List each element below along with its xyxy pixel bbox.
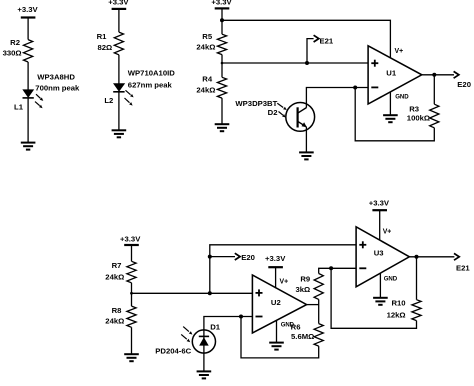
resistor R8 24kΩ	[105, 306, 136, 327]
node (U3 feedback junction)	[329, 266, 333, 270]
node E21 branch	[305, 61, 309, 65]
wire U1 GND pin	[389, 92, 391, 115]
svg-text:24kΩ: 24kΩ	[105, 317, 124, 326]
svg-text:R9: R9	[300, 275, 310, 284]
wire	[318, 299, 320, 323]
svg-text:R7: R7	[112, 261, 122, 270]
svg-text:82Ω: 82Ω	[97, 43, 112, 52]
power +3.3V rail (L1 branch)	[17, 5, 38, 18]
node U1 output	[432, 73, 436, 77]
svg-text:E21: E21	[456, 263, 470, 272]
power +3.3V rail (R5 column)	[211, 0, 232, 8]
wire	[416, 257, 418, 300]
svg-text:24kΩ: 24kΩ	[105, 272, 124, 281]
resistor R1 82Ω	[97, 32, 124, 55]
wire U2 feedback	[241, 317, 319, 358]
svg-text:+3.3V: +3.3V	[120, 235, 141, 244]
transistor D2 WP3DP3BT (phototransistor)	[235, 99, 314, 131]
ground (U2)	[269, 343, 284, 350]
wire	[27, 62, 29, 90]
svg-text:E21: E21	[320, 36, 334, 45]
svg-text:24kΩ: 24kΩ	[196, 42, 215, 51]
net tag E21	[307, 35, 334, 63]
svg-text:R5: R5	[202, 32, 213, 41]
ground (R4)	[215, 124, 230, 131]
svg-text:3kΩ: 3kΩ	[295, 285, 310, 294]
node (R5/R4 junction)	[221, 62, 224, 65]
wire U2 inverting input	[204, 317, 253, 331]
ground (R8)	[124, 354, 139, 361]
svg-text:700nm peak: 700nm peak	[35, 84, 80, 93]
svg-text:L2: L2	[104, 96, 113, 105]
wire	[131, 327, 133, 354]
ground (U3)	[373, 298, 388, 305]
svg-text:V+: V+	[395, 48, 404, 55]
svg-text:R10: R10	[391, 299, 405, 308]
svg-text:12kΩ: 12kΩ	[387, 310, 406, 319]
LED L2 WP710A10ID	[104, 68, 175, 105]
svg-text:+3.3V: +3.3V	[108, 0, 129, 6]
svg-text:U2: U2	[271, 298, 281, 307]
svg-text:E20: E20	[241, 253, 255, 262]
svg-text:100kΩ: 100kΩ	[407, 114, 430, 123]
svg-text:GND: GND	[281, 321, 295, 328]
wire	[221, 98, 223, 124]
power +3.3V rail (L2 branch)	[108, 0, 129, 9]
wire	[221, 8, 223, 34]
ground (U1)	[383, 115, 398, 122]
ground (D2)	[299, 152, 314, 159]
svg-text:+3.3V: +3.3V	[211, 0, 232, 6]
svg-text:+3.3V: +3.3V	[17, 5, 38, 14]
resistor R4 24kΩ	[196, 74, 226, 98]
wire	[27, 98, 29, 143]
svg-text:R1: R1	[97, 32, 108, 41]
ground (D1)	[197, 371, 212, 378]
svg-text:330Ω: 330Ω	[3, 49, 22, 58]
svg-text:R8: R8	[112, 306, 123, 315]
LED L1 WP3A8HD	[14, 73, 80, 112]
ground (L2)	[112, 130, 127, 137]
op-amp U3	[356, 227, 409, 287]
svg-text:R3: R3	[409, 105, 419, 114]
wire U1 output / net E20	[422, 71, 471, 89]
svg-text:WP710A10ID: WP710A10ID	[128, 68, 175, 77]
node (R7/R8 junction)	[130, 292, 133, 295]
wire U2 noninverting input	[132, 292, 253, 294]
node (E20/U3 branch)	[208, 291, 212, 295]
svg-text:24kΩ: 24kΩ	[196, 86, 215, 95]
svg-text:D1: D1	[210, 322, 221, 331]
wire D1 to ground	[203, 353, 205, 371]
wire	[118, 9, 120, 32]
op-amp U2	[252, 275, 306, 333]
svg-text:V+: V+	[280, 278, 289, 285]
svg-text:U3: U3	[374, 249, 384, 258]
wire	[433, 75, 435, 104]
svg-text:L1: L1	[14, 102, 24, 111]
wire V+ supply to U1	[222, 20, 390, 58]
svg-text:V+: V+	[383, 228, 392, 235]
ground (L1)	[21, 143, 36, 150]
resistor R10 12kΩ	[387, 299, 422, 321]
svg-text:D2: D2	[268, 108, 278, 117]
wire U1 noninverting input	[222, 62, 368, 64]
svg-text:R4: R4	[202, 74, 213, 83]
resistor R6 5.6MΩ	[291, 323, 324, 347]
wire R9 to U3 inverting input	[319, 268, 356, 273]
svg-text:U1: U1	[386, 69, 397, 78]
wire to U3 noninverting input	[210, 245, 356, 293]
svg-text:GND: GND	[395, 93, 409, 100]
svg-text:+3.3V: +3.3V	[265, 254, 286, 263]
wire	[118, 92, 120, 131]
node (E20 tag)	[208, 255, 212, 259]
svg-text:GND: GND	[384, 276, 398, 283]
wire U3 output / net E21	[409, 253, 470, 272]
resistor R7 24kΩ	[105, 261, 136, 283]
wire	[131, 245, 133, 261]
photodiode D1 PD204-6C	[155, 322, 220, 355]
svg-text:WP3A8HD: WP3A8HD	[37, 73, 75, 82]
wire	[118, 55, 120, 84]
wire D2 emitter to ground	[305, 127, 307, 152]
net tag E20	[210, 253, 255, 262]
svg-text:5.6MΩ: 5.6MΩ	[291, 332, 314, 341]
wire U2 GND pin	[276, 320, 278, 342]
op-amp U1	[368, 46, 422, 104]
resistor R5 24kΩ	[196, 32, 226, 55]
node feedback junction	[353, 86, 357, 90]
wire U2 output	[307, 304, 319, 306]
node (U2 feedback junction)	[239, 315, 243, 319]
svg-text:PD204-6C: PD204-6C	[155, 346, 191, 355]
wire U1 feedback	[355, 88, 434, 141]
node U3 output	[415, 255, 419, 259]
svg-text:WP3DP3BT: WP3DP3BT	[235, 99, 277, 108]
svg-text:627nm peak: 627nm peak	[128, 80, 173, 89]
wire	[27, 18, 29, 40]
wire U3 feedback	[331, 268, 416, 328]
svg-text:+3.3V: +3.3V	[369, 198, 390, 207]
wire	[131, 283, 133, 306]
svg-text:R2: R2	[10, 38, 20, 47]
power +3.3V rail (U3)	[369, 198, 390, 240]
node (supply branch junction)	[220, 18, 224, 22]
resistor R2 330Ω	[3, 38, 33, 62]
power +3.3V rail (U2)	[265, 254, 286, 288]
resistor R9 3kΩ	[295, 274, 323, 300]
wire	[221, 55, 223, 78]
wire U3 GND pin	[379, 273, 381, 298]
svg-text:E20: E20	[457, 80, 471, 89]
resistor R3 100kΩ	[407, 104, 439, 128]
power +3.3V rail (R7 column)	[120, 235, 141, 245]
wire U1 inverting input	[306, 88, 368, 108]
